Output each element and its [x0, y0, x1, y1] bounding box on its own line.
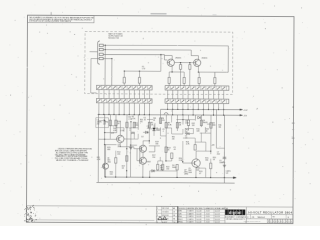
svg-text:Q3: Q3: [118, 144, 120, 146]
svg-text:R SMITH: R SMITH: [187, 216, 193, 218]
svg-text:10-8-58: 10-8-58: [196, 219, 201, 221]
svg-text:D4: D4: [185, 121, 187, 123]
svg-text:2894: 2894: [107, 162, 111, 164]
svg-text:1K: 1K: [186, 132, 188, 134]
svg-text:8: 8: [286, 221, 287, 223]
svg-text:J DOE: J DOE: [205, 211, 209, 213]
svg-text:.01: .01: [143, 119, 145, 121]
svg-text:Q5: Q5: [189, 168, 191, 170]
svg-text:5: 5: [157, 222, 158, 224]
svg-text:150: 150: [152, 157, 155, 159]
svg-text:3009: 3009: [188, 172, 192, 174]
svg-text:1: 1: [268, 221, 269, 223]
svg-text:2894: 2894: [184, 173, 188, 175]
svg-text:C8: C8: [147, 126, 149, 128]
svg-text:D2: D2: [141, 136, 143, 138]
svg-text:2: 2: [270, 221, 271, 223]
svg-text:10-9-58: 10-9-58: [215, 222, 220, 224]
svg-text:.01: .01: [147, 128, 149, 130]
svg-text:R31: R31: [153, 118, 156, 120]
svg-text:EQUIPMENT: EQUIPMENT: [225, 217, 234, 219]
svg-text:470: 470: [140, 121, 143, 123]
svg-text:MODULE 763: MODULE 763: [108, 37, 119, 39]
svg-text:-10V: -10V: [111, 133, 114, 135]
svg-text:J DOE: J DOE: [205, 213, 209, 215]
svg-text:POT: POT: [186, 130, 189, 132]
svg-text:10-9-58: 10-9-58: [215, 211, 220, 213]
svg-text:DRN: DRN: [178, 210, 181, 212]
svg-text:R SMITH: R SMITH: [187, 219, 193, 221]
svg-text:0: 0: [291, 221, 292, 223]
svg-text:EM 5516: EM 5516: [162, 215, 169, 217]
svg-text:B-CS: B-CS: [257, 221, 260, 223]
svg-text:UNLESS OTHERWISE SPECIFIED RES: UNLESS OTHERWISE SPECIFIED RESISTORS: [58, 148, 92, 150]
svg-text:R34: R34: [113, 128, 116, 130]
svg-text:D662: D662: [147, 161, 151, 163]
svg-text:REV: REV: [272, 217, 275, 219]
svg-text:10-9-58: 10-9-58: [215, 219, 220, 221]
svg-text:25V: 25V: [97, 123, 100, 125]
svg-text:R30: R30: [140, 119, 143, 121]
svg-text:1: 1: [157, 208, 158, 210]
svg-text:10-8-58: 10-8-58: [196, 222, 201, 224]
svg-text:J DOE: J DOE: [205, 216, 209, 218]
svg-text:330: 330: [155, 143, 158, 145]
svg-text:R36: R36: [218, 125, 221, 127]
svg-text:5804-0-1: 5804-0-1: [257, 217, 265, 219]
svg-text:10MFD: 10MFD: [219, 162, 225, 164]
svg-text:2N3055: 2N3055: [175, 57, 181, 59]
svg-text:10-8-58: 10-8-58: [196, 213, 201, 215]
svg-text:6: 6: [281, 221, 282, 223]
svg-text:CHK: CHK: [178, 213, 181, 215]
svg-text:3: 3: [157, 215, 158, 217]
svg-text:J DOE: J DOE: [205, 219, 209, 221]
svg-text:JK: JK: [173, 212, 175, 214]
svg-text:R32: R32: [192, 123, 195, 125]
svg-text:220: 220: [172, 138, 175, 140]
svg-text:R SMITH: R SMITH: [187, 222, 193, 224]
svg-text:IN645: IN645: [203, 122, 208, 124]
svg-text:10-8-58: 10-8-58: [196, 216, 201, 218]
svg-text:Q6: Q6: [107, 158, 109, 160]
svg-text:5 W: 5 W: [142, 68, 145, 70]
svg-text:330: 330: [218, 127, 221, 129]
svg-text:PRINTED CIRCUIT REV: PRINTED CIRCUIT REV: [244, 221, 258, 223]
svg-text:J DOE: J DOE: [205, 222, 209, 224]
svg-text:D664: D664: [172, 167, 176, 169]
svg-text:2: 2: [157, 212, 158, 214]
svg-text:4: 4: [276, 221, 277, 223]
svg-text:R SMITH: R SMITH: [187, 213, 193, 215]
svg-text:10-8-58: 10-8-58: [196, 211, 201, 213]
svg-text:680: 680: [212, 125, 215, 127]
svg-text:C2: C2: [103, 120, 105, 122]
svg-text:WF 1203: WF 1203: [162, 208, 169, 210]
svg-text:47: 47: [199, 173, 201, 175]
svg-text:D1: D1: [156, 128, 158, 130]
svg-text:9: 9: [288, 221, 289, 223]
svg-text:R SMITH: R SMITH: [187, 211, 193, 213]
svg-text:100: 100: [110, 174, 113, 176]
svg-text:D001: D001: [185, 122, 189, 124]
svg-text:50V: 50V: [226, 173, 229, 175]
svg-text:390: 390: [135, 125, 138, 127]
svg-text:220: 220: [117, 154, 120, 156]
svg-text:.01: .01: [173, 149, 175, 151]
svg-text:2N3055: 2N3055: [201, 58, 207, 60]
svg-text:PROJ: PROJ: [178, 219, 182, 221]
svg-text:10-9-58: 10-9-58: [215, 213, 220, 215]
svg-text:25V: 25V: [103, 123, 106, 125]
svg-text:150: 150: [166, 168, 169, 170]
svg-text:5: 5: [278, 221, 279, 223]
svg-text:.1: .1: [129, 130, 130, 132]
svg-text:.01: .01: [185, 137, 187, 139]
svg-text:1W: 1W: [160, 169, 163, 171]
svg-text:R33: R33: [206, 129, 209, 131]
svg-text:7: 7: [283, 221, 284, 223]
svg-text:IN962: IN962: [156, 130, 160, 132]
svg-text:C1: C1: [97, 119, 99, 121]
svg-text:3: 3: [273, 221, 274, 223]
svg-text:2894: 2894: [118, 146, 122, 148]
svg-text:R35: R35: [172, 136, 175, 138]
svg-text:470: 470: [162, 120, 165, 122]
svg-text:HI-VOLT REGULATOR 5804: HI-VOLT REGULATOR 5804: [248, 210, 292, 214]
svg-text:680: 680: [107, 149, 110, 151]
svg-text:330: 330: [205, 160, 208, 162]
svg-text:.1: .1: [162, 131, 163, 133]
svg-text:10-9-58: 10-9-58: [215, 216, 220, 218]
svg-text:CS 4421: CS 4421: [162, 212, 168, 214]
svg-text:C9: C9: [162, 129, 164, 131]
